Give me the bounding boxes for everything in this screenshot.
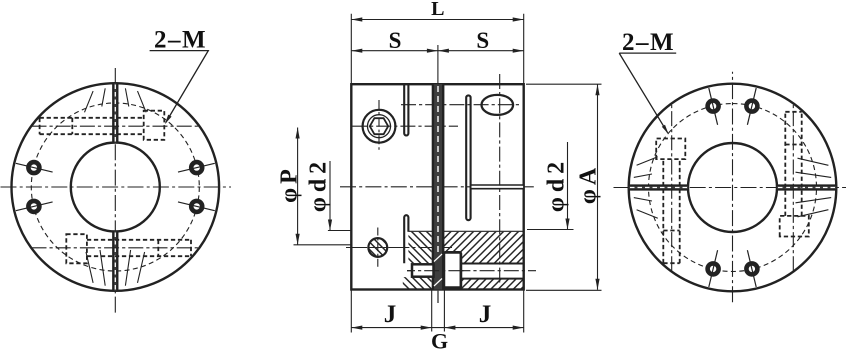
main axis centerline	[340, 186, 537, 188]
right hub screw horizontal axis top	[401, 104, 522, 106]
label 2-M left	[150, 27, 209, 125]
right half long slot	[466, 95, 470, 220]
left hub screw axis bottom	[346, 247, 452, 249]
hex screw vertical centerline	[378, 100, 380, 153]
tapped hole band borders	[461, 264, 524, 279]
label 2-M right	[619, 29, 676, 134]
svg-text:G: G	[431, 329, 448, 351]
central gap edge lines	[433, 84, 443, 289]
sectioned screw circle bottom left	[358, 228, 398, 268]
central gap fill	[433, 84, 443, 289]
arrowheads	[296, 17, 600, 329]
screw block section	[444, 252, 461, 287]
svg-text:2–M: 2–M	[622, 29, 675, 56]
slot lower left half	[404, 215, 408, 263]
hatch right upper block	[443, 232, 524, 263]
screw section axis bottom right	[407, 270, 536, 272]
J extension lines	[351, 290, 523, 333]
phi A extensions	[526, 84, 602, 290]
svg-text:J: J	[384, 301, 397, 328]
right hub slit edge-on double line	[472, 186, 524, 188]
svg-text:J: J	[479, 301, 492, 328]
gap centerline stub below body	[437, 291, 439, 303]
hub front view left	[1, 68, 232, 313]
J dimension line	[351, 327, 523, 329]
svg-text:φA: φA	[576, 164, 602, 204]
phi A arrows	[595, 84, 599, 95]
clamp screw head section	[412, 264, 434, 276]
hatch right lower block	[443, 279, 524, 290]
phiP arrows	[296, 128, 300, 139]
hub front view right, rotated -90deg	[614, 72, 846, 302]
phiP bottom extension	[294, 244, 352, 246]
bore bottom line / hatch top boundary	[408, 230, 523, 232]
phi d2 left arrow	[328, 220, 332, 231]
slot upper left half	[404, 84, 408, 135]
screw axis over head	[407, 270, 466, 272]
S arrows	[351, 49, 362, 53]
phi A dimension line	[597, 84, 599, 290]
central gap white centerline	[437, 86, 439, 252]
svg-text:φd2: φd2	[306, 157, 332, 212]
hatch left strip above screw head	[408, 232, 431, 263]
hex socket	[370, 118, 388, 134]
hatch left strip below screw head	[403, 277, 432, 289]
svg-text:S: S	[476, 28, 489, 53]
svg-text:2–M: 2–M	[154, 27, 207, 54]
phi d2 right arrow	[565, 219, 569, 230]
svg-text:φd2: φd2	[544, 157, 570, 212]
clamp screw hole ellipse	[482, 95, 514, 115]
right hub screw vertical axis	[499, 74, 501, 283]
phi d2 right dimension line	[567, 142, 569, 230]
phi d2 left dimension line	[329, 161, 331, 231]
svg-text:φP: φP	[277, 165, 303, 203]
L extension lines	[351, 14, 523, 84]
G extension lines	[432, 290, 445, 332]
body outline	[351, 84, 523, 289]
left hub screw axis top	[352, 125, 458, 127]
phi d2 right extension	[527, 229, 574, 231]
hex socket screw end view: outer circle	[363, 110, 396, 143]
S center extension	[437, 45, 439, 84]
J arrows	[351, 326, 362, 330]
L arrows	[351, 17, 362, 21]
phiP dimension line	[297, 128, 299, 245]
gap white slashes bottom	[434, 254, 442, 286]
dimension texts	[277, 0, 602, 351]
hex socket screw inner circle	[368, 115, 391, 138]
S dimension line	[351, 50, 523, 52]
svg-text:L: L	[431, 0, 444, 20]
phi d2 left extension	[328, 230, 351, 232]
L dimension line	[351, 19, 523, 21]
svg-text:S: S	[389, 28, 402, 53]
